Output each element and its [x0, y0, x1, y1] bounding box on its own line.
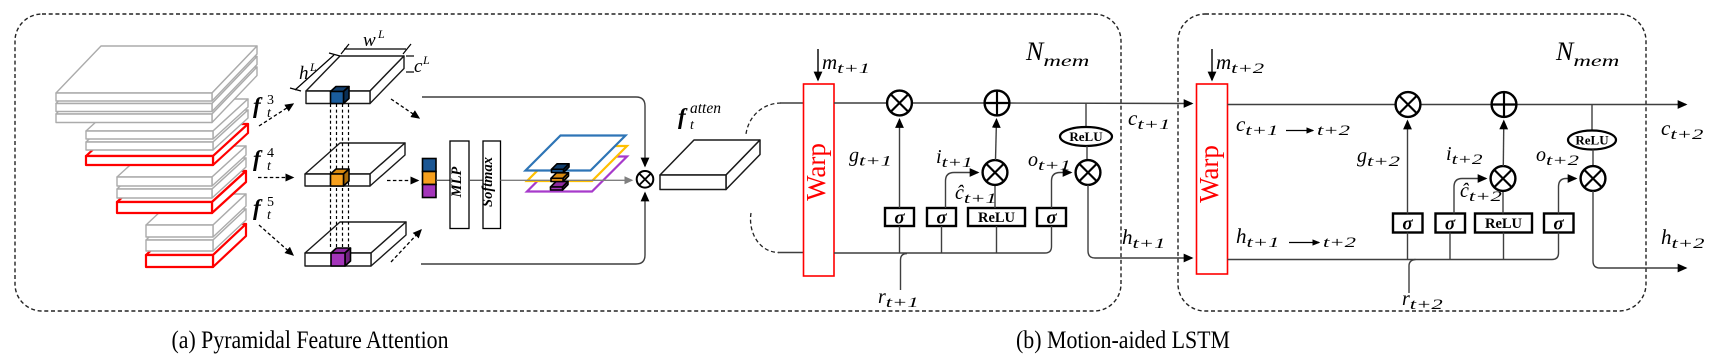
wire otimes out2 down to h_t+2 out	[1593, 191, 1686, 268]
pyramid g1 slab 1	[56, 46, 257, 101]
m_t+2 input arrow	[1211, 49, 1213, 80]
svg-text:Warp: Warp	[1194, 145, 1224, 203]
Softmax box	[483, 141, 501, 229]
svg-text:(b) Motion-aided LSTM: (b) Motion-aided LSTM	[1016, 327, 1230, 354]
svg-text:MLP: MLP	[449, 167, 465, 199]
wire sigma_g down to h line	[899, 226, 901, 253]
c wire oplus2 -> c_t+2 out	[1516, 104, 1686, 106]
wire sigma_g up to otimes	[899, 120, 901, 209]
Warp box 2	[1197, 84, 1228, 274]
feature slab B (f4)	[305, 143, 405, 186]
wire stack->MLP	[436, 179, 450, 181]
wire ReLU2 down	[1503, 233, 1505, 260]
svg-text:ReLU: ReLU	[1485, 216, 1523, 232]
blue cube on slab A	[331, 87, 350, 104]
wire oval to otimes out	[1086, 146, 1088, 160]
wire sigma_i to small otimes	[946, 173, 979, 209]
blue attention map	[526, 136, 626, 171]
panel (b2) dashed rounded border	[1178, 14, 1646, 311]
c wire otimes -> oplus	[911, 102, 985, 104]
dashed projection lines between cubes	[331, 104, 349, 248]
svg-text:(a) Pyramidal Feature Attentio: (a) Pyramidal Feature Attention	[172, 327, 449, 354]
svg-text:σ: σ	[1553, 214, 1564, 235]
svg-text:h: h	[299, 63, 309, 84]
orange cube on slab B	[331, 169, 350, 186]
dimension c^L	[406, 56, 414, 72]
c wire Warp1 -> otimes g	[834, 102, 888, 104]
sigma box g1	[885, 208, 914, 226]
dashed arrow f5	[259, 225, 293, 255]
wire sigma_g2 down	[1407, 233, 1409, 260]
oplus cell add 2	[1492, 92, 1517, 117]
wire sigma_o2 to otimes out2	[1559, 179, 1577, 214]
svg-text:t+2: t+2	[1323, 235, 1357, 251]
purple cube on slab C	[331, 248, 351, 266]
otimes (attention multiply)	[637, 171, 654, 188]
feature pyramid group 3	[117, 146, 246, 213]
wire oval2 to otimes out2	[1592, 150, 1594, 167]
svg-text:L: L	[309, 60, 317, 74]
feature slab A (f3)	[306, 56, 404, 104]
mini orange slab	[551, 173, 569, 182]
otimes g gate 1	[887, 91, 912, 116]
wire ReLU up to small otimes	[994, 185, 996, 208]
pyramid g4 slab 2	[146, 209, 246, 251]
pyramid g3 slab 2	[117, 158, 246, 198]
h wire Warp2 right, curving into sigma_o2	[1228, 233, 1559, 260]
pyramid g2 slab 1	[86, 99, 248, 139]
dashed arc top (cell opening)	[746, 103, 781, 134]
feature pyramid group 2	[86, 99, 248, 165]
stacked feature vector (blue/orange/purple squares)	[423, 159, 437, 198]
small otimes2 (i x chat)	[1491, 166, 1516, 191]
wire c2 to ReLU oval2	[1591, 105, 1593, 132]
feature pyramid group 1 (top)	[56, 46, 257, 123]
svg-text:Warp: Warp	[801, 143, 831, 201]
small otimes (i x chat)	[983, 160, 1008, 185]
feature pyramid group 4	[146, 194, 246, 267]
h input wire into Warp1	[778, 252, 804, 254]
svg-text:σ: σ	[894, 208, 905, 229]
m_t+1 input arrow	[817, 49, 819, 80]
svg-text:t+2: t+2	[1317, 123, 1351, 139]
ReLU box 1	[968, 208, 1025, 226]
f_t^atten slab	[660, 140, 760, 190]
pyramid g2 slab 2	[86, 110, 248, 150]
ReLU oval 1	[1060, 127, 1112, 146]
svg-text:c: c	[414, 56, 423, 77]
otimes output gate 1	[1076, 160, 1101, 185]
r_t+1 riser	[901, 254, 908, 291]
pyramid g2 slab red	[86, 124, 248, 165]
sigma box o2	[1544, 214, 1574, 233]
dashed arrow f4	[258, 177, 293, 179]
dashed arrow slab B to stack	[387, 180, 418, 182]
sigma box o1	[1037, 208, 1066, 226]
sigma box i1	[927, 208, 956, 226]
wire otimes out down to h_t+1	[1088, 185, 1192, 258]
ReLU box 2	[1475, 214, 1532, 233]
c wire otimes2 -> oplus2	[1420, 104, 1492, 106]
pyramid g1 slab 2	[56, 57, 257, 112]
otimes output gate 2	[1581, 166, 1606, 191]
pyramid g4 slab red	[146, 224, 246, 267]
wire sigma_i2 down	[1449, 233, 1451, 260]
wire MLP->Softmax	[469, 179, 483, 181]
c input wire into Warp1	[780, 102, 804, 104]
svg-text:σ: σ	[1445, 214, 1456, 235]
h wire Warp1 right, curving into sigma_o	[834, 226, 1052, 253]
svg-text:L: L	[377, 27, 385, 41]
wire ReLU down to h line	[996, 226, 998, 253]
otimes g gate 2	[1396, 92, 1421, 117]
dashed arrow f3	[259, 104, 293, 126]
wire ReLU2 up to small otimes2	[1502, 191, 1504, 214]
svg-text:σ: σ	[1046, 208, 1057, 229]
mini blue slab	[552, 164, 570, 173]
r_t+2 riser	[1409, 260, 1416, 294]
pyramid g3 slab red	[117, 171, 246, 213]
dashed arrow slab A to top wire	[391, 99, 419, 118]
top wire from slab A to otimes	[422, 97, 645, 166]
svg-text:Softmax: Softmax	[480, 157, 496, 207]
svg-text:ReLU: ReLU	[978, 210, 1016, 226]
wire c to ReLU oval	[1085, 103, 1087, 128]
svg-text:ReLU: ReLU	[1069, 129, 1103, 144]
dashed arrow slab C to bottom wire	[391, 230, 421, 262]
feature slab C (f5)	[305, 222, 406, 266]
wire sigma_i2 to small otimes2	[1454, 179, 1486, 214]
dimension h^L	[290, 53, 340, 91]
c wire Warp2 -> otimes g2	[1228, 104, 1397, 106]
sigma box g2	[1393, 214, 1423, 233]
pyramid g3 slab 1	[117, 146, 246, 186]
panel (a)+(b1) dashed rounded border	[15, 14, 1121, 311]
wire sigma_g2 up to otimes2	[1407, 121, 1409, 214]
purple attention map	[527, 157, 627, 192]
svg-text:σ: σ	[1402, 214, 1413, 235]
pyramid g4 slab 1	[146, 194, 246, 237]
wire small otimes up to oplus	[996, 120, 997, 161]
mini purple slab	[551, 182, 569, 191]
bottom wire from slab C to otimes	[421, 193, 645, 264]
ReLU oval 2	[1568, 131, 1616, 150]
svg-text:L: L	[422, 53, 430, 67]
sigma box i2	[1436, 214, 1466, 233]
pyramid g1 slab 3	[56, 67, 257, 123]
svg-text:ReLU: ReLU	[1575, 133, 1609, 148]
MLP box	[450, 141, 469, 229]
wire Softmax->otimes (gray)	[501, 179, 633, 181]
wire small otimes2 up to oplus2	[1502, 121, 1505, 166]
orange attention map	[527, 146, 627, 181]
svg-text:w: w	[363, 30, 376, 51]
dashed arc bottom (cell opening)	[751, 213, 779, 253]
c wire oplus -> Warp2 (c_t+1)	[1009, 102, 1192, 105]
svg-text:σ: σ	[936, 208, 947, 229]
svg-text:atten: atten	[690, 100, 721, 117]
oplus cell add 1	[985, 91, 1010, 116]
Warp box 1	[804, 84, 835, 276]
wire sigma_o to otimes out	[1052, 173, 1072, 209]
wire sigma_i down to h line	[941, 226, 943, 253]
dimension w^L	[341, 44, 411, 54]
